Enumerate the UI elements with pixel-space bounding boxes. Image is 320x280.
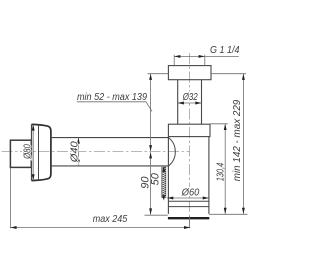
svg-text:Ø60: Ø60 — [181, 187, 200, 198]
dimension Ø80 vertical line — [32, 124, 34, 180]
dimension 130,4 vertical line — [224, 124, 226, 214]
bottom reference extension line right — [209, 213, 248, 215]
min52 arrows — [149, 74, 152, 152]
bottom reference extension line left — [145, 214, 168, 216]
dimension 90 vertical line — [150, 152, 152, 214]
Ø80 arrows — [32, 124, 35, 180]
left extension line for max 245 — [9, 168, 11, 229]
130,4 arrows — [224, 124, 227, 214]
dimension Ø40 vertical line — [77, 138, 79, 166]
horizontal centerline of outlet pipe — [2, 151, 191, 153]
bottle top nut — [168, 124, 210, 136]
dimension Ø32 — [178, 102, 202, 104]
dimension min 142 - max 229 vertical line — [242, 74, 244, 214]
vertical centerline of trap body — [189, 53, 191, 228]
90 arrows — [149, 152, 152, 214]
svg-text:min 142 - max 229: min 142 - max 229 — [232, 99, 243, 181]
vertical tube Ø32 — [178, 80, 202, 125]
dimension min 52 - max 139 vertical line — [150, 74, 152, 152]
rosette (wall flange Ø80) — [31, 124, 33, 180]
cup bottom thick band — [168, 217, 209, 219]
extension line for 130,4 at nut top — [210, 123, 228, 125]
outlet pipe bottom wall — [51, 165, 169, 167]
G 1 1/4 arrows — [174, 55, 205, 58]
svg-text:Ø40: Ø40 — [69, 141, 80, 164]
dimension Ø60 — [167, 197, 209, 199]
svg-text:Ø32: Ø32 — [182, 92, 198, 103]
svg-text:max 245: max 245 — [93, 214, 128, 225]
G 1 1/4 dimension line and shelf — [174, 55, 239, 57]
dimension 50 hatched bar — [162, 166, 166, 200]
rosette seam — [38, 125, 40, 181]
min142 arrows — [242, 74, 245, 214]
svg-text:130,4: 130,4 — [216, 162, 227, 181]
outlet pipe top wall — [51, 137, 169, 139]
svg-text:min 52 - max 139: min 52 - max 139 — [77, 92, 147, 103]
top reference extension line left — [148, 73, 169, 75]
cup seam lines — [168, 201, 209, 206]
inlet bulge arc — [169, 138, 176, 167]
bottle body — [168, 137, 209, 214]
top reference extension line right — [211, 73, 246, 75]
svg-text:50: 50 — [150, 172, 162, 185]
max245 arrows — [10, 226, 190, 229]
Ø40 arrows — [77, 138, 80, 166]
G 1 1/4 extension lines — [174, 55, 205, 66]
top flange (sink nut) — [168, 66, 211, 80]
wall pipe — [10, 140, 31, 167]
svg-text:Ø80: Ø80 — [22, 144, 33, 160]
svg-text:G 1 1/4: G 1 1/4 — [210, 44, 240, 56]
bottom extension of centerline for max 245 — [189, 216, 191, 228]
dimension max 245 line — [10, 227, 190, 229]
